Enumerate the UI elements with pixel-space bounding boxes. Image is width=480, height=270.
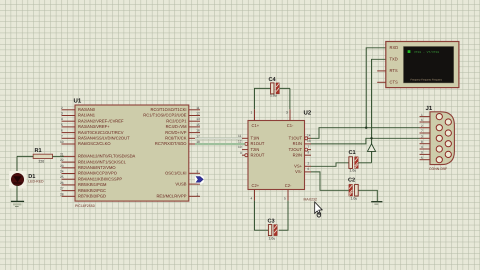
pin 2 RA0/AN0	[61, 106, 96, 112]
svg-text:CONN-D9F: CONN-D9F	[429, 167, 447, 171]
svg-text:RB2/AN8/INT2/VMO: RB2/AN8/INT2/VMO	[78, 165, 116, 170]
wire D1 cathode to ground	[16, 185, 18, 201]
pin 14 VUSB	[175, 181, 200, 186]
svg-text:U2: U2	[304, 110, 312, 117]
svg-text:VS-: VS-	[295, 169, 302, 174]
svg-text:R1OUT: R1OUT	[251, 141, 265, 146]
svg-text:RA4/T0CKI/C1OUT/RCV: RA4/T0CKI/C1OUT/RCV	[78, 130, 124, 135]
svg-text:LED-RED: LED-RED	[28, 180, 44, 184]
svg-text:C2+: C2+	[252, 183, 260, 188]
svg-text:7: 7	[308, 145, 310, 149]
J1 pin 2	[420, 124, 431, 128]
svg-text:2: 2	[308, 162, 310, 166]
svg-text:9: 9	[421, 151, 423, 155]
pin 15 RC4/D-/VM	[166, 123, 200, 129]
svg-text:1.0u: 1.0u	[270, 93, 277, 97]
capacitor C4	[271, 83, 280, 94]
svg-text:RA6/OSC2/CLKO: RA6/OSC2/CLKO	[78, 141, 111, 146]
pin 3 RA1/AN1	[61, 112, 96, 118]
svg-text:9: 9	[240, 151, 242, 155]
pin 25 RB4/AN11/KBI0/CSSPP	[60, 175, 122, 181]
svg-text:25: 25	[60, 175, 64, 179]
svg-text:R1: R1	[35, 148, 42, 154]
pin 8 R2IN	[293, 151, 311, 158]
J1 pin 1	[420, 113, 431, 117]
svg-text:U1: U1	[74, 98, 82, 105]
svg-text:7: 7	[421, 129, 423, 133]
svg-text:RB0/AN12/INT0/FLT0/SDI/SDA: RB0/AN12/INT0/FLT0/SDI/SDA	[78, 154, 136, 159]
svg-text:TXD: TXD	[390, 57, 398, 62]
pin 10 T2IN	[238, 145, 259, 152]
svg-text:6: 6	[61, 129, 63, 133]
J1 pin 7	[420, 129, 431, 133]
svg-text:7: 7	[61, 134, 63, 138]
svg-text:2: 2	[61, 106, 63, 110]
J1 pin 6	[420, 118, 431, 122]
svg-text:8: 8	[421, 140, 423, 144]
svg-text:13: 13	[196, 117, 200, 121]
connector J1	[430, 112, 454, 165]
wire terminal RXD down	[366, 48, 386, 128]
capacitor C3	[268, 225, 277, 236]
svg-text:RTS: RTS	[390, 68, 398, 73]
svg-text:RC7/RX/DT/SDO: RC7/RX/DT/SDO	[155, 141, 187, 146]
pin 22 RB1/AN10/INT1/SCK/SCL	[60, 158, 127, 164]
svg-text:RXD: RXD	[390, 45, 399, 50]
svg-text:RB5/KBI1/PGM: RB5/KBI1/PGM	[78, 182, 107, 187]
pin 4 RA2/AN2/VREF-/CVREF	[61, 117, 124, 123]
svg-text:5: 5	[284, 197, 286, 201]
svg-text:4: 4	[251, 197, 253, 201]
svg-text:VT01 - VT/VT01: VT01 - VT/VT01	[414, 50, 439, 54]
svg-text:24: 24	[60, 170, 64, 174]
resistor R1	[33, 154, 52, 158]
mouse cursor	[315, 202, 323, 217]
svg-text:10: 10	[60, 140, 64, 144]
wire T1OUT to J1 pin 2	[311, 128, 420, 139]
pin 28 RB7/KBI3/PGD	[60, 192, 106, 198]
pin 11 RC0/T1OSO/T1CKI	[151, 106, 200, 112]
svg-text:220: 220	[39, 160, 45, 164]
svg-text:3: 3	[286, 111, 288, 115]
svg-text:C1+: C1+	[252, 123, 260, 128]
wire C1 to power rail	[358, 162, 371, 164]
svg-text:RA5/AN4/SS/LVDIN/C2OUT: RA5/AN4/SS/LVDIN/C2OUT	[78, 136, 130, 141]
svg-text:C1: C1	[349, 150, 356, 156]
pin RTS	[377, 68, 398, 73]
svg-text:T1OUT: T1OUT	[289, 136, 303, 141]
svg-text:4: 4	[421, 145, 423, 149]
wire R1 right lead to U1 pin 21	[53, 155, 64, 157]
svg-text:3: 3	[421, 135, 423, 139]
svg-text:5: 5	[61, 123, 63, 127]
wire VS+ to C1	[311, 163, 349, 167]
pin 23 RB2/AN8/INT2/VMO	[60, 164, 116, 170]
svg-text:T1IN: T1IN	[251, 136, 260, 141]
svg-text:R1IN: R1IN	[293, 141, 302, 146]
svg-text:C3: C3	[268, 219, 275, 225]
svg-text:12: 12	[238, 140, 242, 144]
pin 18 RC7/RX/DT/SDO	[155, 140, 200, 146]
svg-text:27: 27	[60, 187, 64, 191]
ground (C2)	[371, 202, 382, 204]
J1 pin 5	[420, 156, 431, 160]
svg-text:16: 16	[196, 129, 200, 133]
wire VS- to C2	[311, 172, 349, 190]
svg-text:R2IN: R2IN	[293, 152, 302, 157]
wire C4 left (U2 pin 1 up)	[255, 88, 271, 109]
svg-text:RE3/MCLR/VPP: RE3/MCLR/VPP	[156, 194, 186, 199]
pin 7 T2OUT (bubble)	[289, 145, 311, 152]
wire R1 to D1 anode	[16, 156, 18, 173]
pin 13 RC2/CCP1	[166, 117, 200, 123]
svg-text:RB7/KBI3/PGD: RB7/KBI3/PGD	[78, 194, 106, 199]
pin 12 RC1/T1OSI/CCP2/UOE	[143, 112, 200, 118]
svg-text:10: 10	[238, 145, 242, 149]
svg-text:T2OUT: T2OUT	[289, 147, 303, 152]
capacitor C2	[349, 184, 358, 196]
svg-text:1.0u: 1.0u	[351, 197, 358, 201]
pin 6 RA4/T0CKI/C1OUT/RCV	[61, 129, 124, 135]
svg-text:RB4/AN11/KBI0/CSSPP: RB4/AN11/KBI0/CSSPP	[78, 176, 122, 181]
pin 9 R2OUT (bubble)	[240, 151, 265, 158]
svg-text:6: 6	[308, 167, 310, 171]
svg-text:RA0/AN0: RA0/AN0	[78, 107, 96, 112]
power terminal (VCC arrow)	[367, 144, 375, 152]
wire R1IN to J1 pin 3	[311, 138, 420, 144]
virtual terminal instrument	[386, 42, 459, 88]
svg-text:RC2/CCP1: RC2/CCP1	[166, 118, 187, 123]
wire U1 pin17 to U2 T1IN (white net)	[195, 137, 242, 139]
svg-text:1.0u: 1.0u	[350, 169, 357, 173]
svg-text:PIC18F2550: PIC18F2550	[75, 204, 95, 208]
svg-text:11: 11	[196, 106, 200, 110]
svg-text:4: 4	[61, 117, 63, 121]
svg-text:28: 28	[60, 192, 64, 196]
svg-text:RC1/T1OSI/CCP2/UOE: RC1/T1OSI/CCP2/UOE	[143, 113, 186, 118]
node RXD/T1OUT junction	[365, 127, 367, 129]
svg-text:VS+: VS+	[294, 164, 302, 169]
svg-text:R2OUT: R2OUT	[251, 152, 265, 157]
svg-text:C2: C2	[348, 178, 355, 184]
svg-text:1: 1	[197, 192, 199, 196]
svg-text:C4: C4	[269, 77, 277, 83]
pin 14 T1OUT (bubble)	[289, 134, 311, 141]
svg-text:15: 15	[196, 123, 200, 127]
node TXD/R1IN junction	[370, 137, 372, 139]
svg-text:RA1/AN1: RA1/AN1	[78, 113, 96, 118]
pin 27 RB6/KBI2/PGC	[60, 187, 106, 193]
pin 5 C2-	[284, 183, 292, 201]
svg-text:RC6/TX/CK: RC6/TX/CK	[165, 136, 187, 141]
svg-text:21: 21	[60, 152, 64, 156]
svg-text:12: 12	[196, 112, 200, 116]
wire terminal TXD down	[372, 59, 386, 163]
pin CTS	[377, 80, 398, 85]
pin 4 C2+	[251, 183, 260, 201]
svg-text:Frequenz Frequenz Frequenz: Frequenz Frequenz Frequenz	[411, 79, 443, 82]
LED D1	[9, 171, 26, 188]
pin 13 R1IN	[293, 139, 311, 146]
pin 24 RB3/AN9/CCP2/VPO	[60, 170, 117, 176]
pin 12 R1OUT (bubble)	[238, 140, 265, 147]
pin 17 RC6/TX/CK	[165, 134, 200, 140]
ground (LED)	[11, 201, 24, 206]
pin 10 RA6/OSC2/CLKO	[60, 140, 111, 146]
J1 pin 8	[420, 140, 431, 144]
svg-text:13: 13	[307, 139, 311, 143]
svg-text:2: 2	[421, 124, 423, 128]
svg-text:RA3/AN3/VREF+: RA3/AN3/VREF+	[78, 124, 110, 129]
svg-text:23: 23	[60, 164, 64, 168]
pin 3 C1-	[286, 109, 294, 128]
capacitor C1	[349, 157, 358, 169]
svg-text:14: 14	[307, 134, 311, 138]
pin 21 RB0/AN12/INT0/FLT0/SDI/SDA	[60, 152, 136, 158]
pin 6 VS-	[295, 167, 311, 174]
wire C4 right (U2 pin 3 up)	[279, 88, 290, 109]
pin 2 VS+	[294, 162, 311, 169]
wire C3 right (U2 pin 5 down)	[279, 201, 288, 231]
svg-text:RC5/D+/VP: RC5/D+/VP	[165, 130, 187, 135]
pin 16 RC5/D+/VP	[165, 129, 200, 135]
pin 5 RA3/AN3/VREF+	[61, 123, 110, 129]
J1 pin 9	[420, 151, 431, 155]
svg-text:MAX232: MAX232	[304, 197, 317, 201]
svg-text:J1: J1	[426, 105, 433, 112]
svg-text:5: 5	[421, 156, 423, 160]
svg-text:1: 1	[251, 111, 253, 115]
VUSB blue terminal marker	[195, 175, 204, 183]
svg-text:1.0u: 1.0u	[269, 237, 276, 241]
svg-text:RC4/D-/VM: RC4/D-/VM	[166, 124, 188, 129]
svg-text:RC0/T1OSO/T1CKI: RC0/T1OSO/T1CKI	[151, 107, 187, 112]
wire C3 left (U2 pin 4 down)	[255, 201, 269, 231]
svg-text:C2-: C2-	[285, 183, 292, 188]
svg-text:22: 22	[60, 158, 64, 162]
microcontroller U1 body	[75, 105, 189, 201]
J1 pin 3	[420, 135, 431, 139]
svg-text:RB3/AN9/CCP2/VPO: RB3/AN9/CCP2/VPO	[78, 171, 117, 176]
level shifter U2 body	[248, 121, 305, 190]
pin 9 OSC1/CLKI	[165, 169, 200, 175]
svg-text:RB1/AN10/INT1/SCK/SCL: RB1/AN10/INT1/SCK/SCL	[78, 159, 127, 164]
pin 11 T1IN	[238, 134, 259, 141]
pin 7 RA5/AN4/SS/LVDIN/C2OUT	[61, 134, 130, 140]
pin 1 RE3/MCLR/VPP	[156, 192, 200, 198]
wire U1 pin18 to U2 R1OUT (green net)	[195, 143, 245, 145]
pin 1 C1+	[251, 109, 260, 128]
svg-text:VUSB: VUSB	[175, 181, 186, 186]
svg-text:RB6/KBI2/PGC: RB6/KBI2/PGC	[78, 188, 106, 193]
svg-text:1: 1	[421, 113, 423, 117]
svg-text:CTS: CTS	[390, 80, 398, 85]
J1 pin 4	[420, 145, 431, 149]
wire R1 left lead	[17, 155, 33, 157]
pin 26 RB5/KBI1/PGM	[60, 181, 107, 187]
svg-text:OSC1/CLKI: OSC1/CLKI	[165, 171, 186, 176]
svg-text:9: 9	[197, 169, 199, 173]
svg-text:8: 8	[308, 151, 310, 155]
svg-text:11: 11	[238, 134, 242, 138]
wire C2 to ground	[358, 190, 377, 201]
svg-text:6: 6	[421, 118, 423, 122]
svg-text:C1-: C1-	[287, 123, 294, 128]
svg-text:26: 26	[60, 181, 64, 185]
svg-text:3: 3	[61, 112, 63, 116]
svg-text:T2IN: T2IN	[251, 147, 260, 152]
svg-text:RA2/AN2/VREF-/CVREF: RA2/AN2/VREF-/CVREF	[78, 118, 124, 123]
